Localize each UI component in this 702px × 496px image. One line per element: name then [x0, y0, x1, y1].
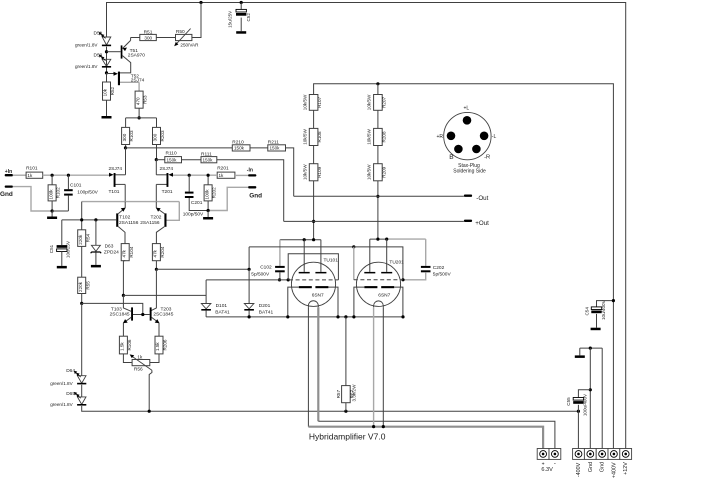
- node grid loop left: [287, 278, 290, 281]
- svg-text:T201: T201: [162, 189, 173, 195]
- svg-text:2SJ74: 2SJ74: [109, 166, 123, 172]
- node R56 wiper on rail: [148, 410, 151, 413]
- wire R55 node down to D64: [81, 303, 83, 375]
- resistor R57 3.3k/2W: [345, 317, 347, 386]
- resistor R104 47k: [121, 244, 129, 261]
- svg-text:150k: 150k: [203, 158, 214, 163]
- wire R108-R109: [313, 146, 315, 164]
- node gnd star: [589, 347, 592, 350]
- node D51-D52 junction: [105, 50, 108, 53]
- wire R209 to TU201 anode node: [377, 181, 379, 239]
- node C55 bottom on rail: [577, 410, 580, 413]
- wire R106 to R56: [123, 354, 132, 363]
- wire T51 base: [107, 51, 121, 53]
- resistor R209 10k/5W: [374, 164, 383, 181]
- svg-text:2SA1156: 2SA1156: [140, 220, 160, 226]
- ground below C54: [591, 328, 601, 331]
- wire R52 to ground: [106, 100, 108, 116]
- svg-text:100k: 100k: [204, 189, 209, 200]
- TU201 left cathode bar: [364, 286, 377, 288]
- svg-text:T102: T102: [119, 214, 130, 220]
- node TU101 left cathode rail: [286, 315, 289, 318]
- ground below C51: [57, 266, 67, 269]
- svg-text:green/1.8V: green/1.8V: [75, 64, 98, 69]
- svg-text:green/1.8V: green/1.8V: [50, 381, 73, 386]
- node anode right pin TU201: [385, 238, 388, 241]
- TU201 right cathode wire: [394, 287, 403, 317]
- TU101 left cathode wire: [288, 287, 299, 317]
- wire R207-R208: [377, 110, 379, 128]
- T51 emitter with arrow: [122, 40, 130, 48]
- svg-text:100p/50V: 100p/50V: [77, 190, 98, 196]
- svg-text:C52: C52: [246, 13, 251, 22]
- TU201 grid dashed: [354, 279, 403, 281]
- wire +In to R101: [13, 174, 26, 176]
- TU101 right cathode wire: [328, 287, 338, 317]
- terminal Gnd b: [596, 449, 608, 460]
- svg-text:green/1.8V: green/1.8V: [75, 43, 98, 48]
- node wire B D63: [94, 218, 97, 221]
- wire R103/R203 tops: [126, 117, 157, 119]
- resistor R51 300: [131, 37, 140, 39]
- svg-text:150k: 150k: [234, 146, 245, 151]
- resistor R201 1k: [217, 172, 235, 178]
- svg-text:47k: 47k: [153, 249, 158, 257]
- node C101 top: [67, 174, 70, 177]
- terminal +Out: [464, 220, 472, 222]
- resistor R111 150k: [201, 157, 217, 163]
- node T203 base / wire D: [155, 268, 158, 271]
- wire D101 to cathode rail: [205, 311, 207, 317]
- svg-text:R52: R52: [110, 86, 115, 95]
- TU101 heater arch: [308, 301, 318, 307]
- wire +400V rail: [314, 84, 614, 449]
- node C102 bottom on grid wire: [278, 278, 281, 281]
- svg-text:R208: R208: [381, 131, 386, 142]
- T203 emitter with arrow: [152, 317, 159, 323]
- ground node wires: [580, 347, 602, 349]
- node rail R207: [376, 82, 379, 85]
- T201 gate arrow: [168, 173, 173, 177]
- wire R210-R211: [250, 147, 268, 149]
- resistor R106 1.5k: [119, 336, 127, 354]
- svg-text:B: B: [449, 154, 454, 161]
- heater wire TU101 pin dark: [307, 307, 309, 427]
- svg-text:D101: D101: [216, 303, 228, 309]
- T52 gate arrow: [107, 73, 114, 75]
- svg-text:R56: R56: [134, 366, 143, 372]
- node collector link: [141, 313, 144, 316]
- svg-text:C102: C102: [260, 265, 272, 271]
- svg-text:2SJ74: 2SJ74: [131, 78, 145, 84]
- wire R201 to -In stub: [235, 174, 248, 176]
- svg-text:10k/5W: 10k/5W: [302, 129, 307, 145]
- svg-text:Gnd: Gnd: [249, 193, 262, 200]
- svg-text:300: 300: [144, 35, 152, 40]
- TU101 grid dashed: [289, 279, 338, 281]
- node heater TU201 a: [372, 425, 375, 428]
- terminal +12V: [620, 449, 632, 460]
- T101 gate arrow: [109, 173, 114, 177]
- Stax pin +L: [463, 116, 472, 125]
- svg-text:R207: R207: [381, 96, 386, 107]
- wire C grid drive L: [123, 294, 206, 296]
- svg-text:-R: -R: [484, 154, 490, 160]
- terminal +400V: [608, 449, 620, 460]
- wire R103 bottom to feedback row: [125, 145, 127, 148]
- wire node to C101 bottom: [52, 210, 68, 212]
- JFET T101 2SJ74 channel bar: [114, 173, 116, 187]
- ground below D63: [91, 265, 101, 268]
- svg-text:R210: R210: [232, 139, 244, 145]
- svg-text:+Out: +Out: [475, 220, 489, 227]
- svg-text:220k: 220k: [78, 281, 83, 292]
- svg-text:R54: R54: [85, 233, 90, 242]
- T201 source wire: [156, 183, 166, 185]
- capacitor C54 10u/400V: [597, 301, 614, 307]
- potentiometer R56 1k: [132, 360, 150, 366]
- heater wire TU201 pin gray: [373, 307, 375, 427]
- T102 collector: [118, 227, 125, 244]
- resistor R204 47k: [152, 244, 160, 261]
- wire Gnd right path: [208, 187, 248, 210]
- wire +Out: [284, 220, 464, 222]
- wire gnd terminal 2: [601, 348, 603, 448]
- T202 emitter with arrow: [156, 208, 164, 214]
- svg-text:D52: D52: [94, 53, 103, 59]
- resistor R203 300: [153, 127, 161, 144]
- svg-text:6.3V: 6.3V: [541, 467, 553, 473]
- svg-text:6SN7: 6SN7: [378, 292, 390, 298]
- LED D65 green/1.8V: [77, 397, 86, 405]
- svg-text:C201: C201: [191, 200, 203, 206]
- TU201 anode node wire: [370, 238, 387, 240]
- node rail junction R50: [199, 1, 202, 4]
- node R103 bottom: [124, 146, 127, 149]
- node gnd node L: [51, 209, 54, 212]
- R56 wiper wire to rail: [149, 370, 152, 411]
- wire R107-R108: [313, 110, 315, 128]
- svg-text:R104: R104: [129, 246, 134, 257]
- svg-text:10k/5W: 10k/5W: [367, 94, 372, 110]
- svg-text:R206: R206: [163, 339, 168, 350]
- wire R211 to -Out: [286, 148, 294, 196]
- svg-text:C202: C202: [433, 265, 445, 271]
- svg-text:R110: R110: [166, 151, 177, 157]
- resistor R206 1.5k: [155, 336, 163, 354]
- TU101 right cathode bar: [315, 286, 328, 288]
- heater gray rail 6.3V+: [308, 427, 543, 449]
- svg-text:10u/25V: 10u/25V: [66, 240, 71, 258]
- ground L input: [51, 211, 53, 217]
- wire R103 to R210: [126, 147, 233, 149]
- wire R111 to +Out: [217, 160, 284, 222]
- svg-text:-Out: -Out: [476, 195, 488, 202]
- node heater TU201 b: [382, 425, 385, 428]
- resistor R202 100k: [207, 175, 209, 185]
- TU101 right anode pin: [320, 240, 322, 272]
- resistor R54 220k: [78, 230, 86, 247]
- svg-text:15u/25V: 15u/25V: [228, 10, 233, 28]
- svg-text:10k/5W: 10k/5W: [302, 94, 307, 110]
- svg-text:1k: 1k: [219, 173, 225, 178]
- zener D63 ZPD24: [95, 220, 97, 245]
- node TU101 right cathode rail: [336, 315, 339, 318]
- svg-text:R106: R106: [127, 339, 132, 350]
- Stax plug circle: [444, 112, 491, 159]
- svg-text:Gnd: Gnd: [588, 462, 594, 472]
- node D201 rail: [248, 315, 251, 318]
- node R53 junction: [138, 116, 141, 119]
- svg-text:300: 300: [153, 133, 158, 141]
- TU201 grid loop: [353, 247, 355, 280]
- svg-text:100p/50V: 100p/50V: [183, 211, 204, 217]
- svg-text:D201: D201: [259, 303, 271, 309]
- capacitor C52 15u/25V: [240, 3, 242, 10]
- resistor R107 10k/5W: [309, 95, 318, 111]
- svg-text:5p/500V: 5p/500V: [433, 272, 452, 278]
- node TU201 left cathode rail: [352, 315, 355, 318]
- wire +12V top rail: [107, 3, 626, 449]
- svg-text:T101: T101: [109, 189, 120, 195]
- TU101 left anode pin: [303, 240, 305, 272]
- svg-text:300: 300: [122, 133, 127, 141]
- LED D52 green/1.8V: [102, 59, 111, 66]
- JFET T201 2SJ74 channel bar: [167, 173, 169, 187]
- TU101 anode node wire: [280, 239, 321, 241]
- svg-text:+400V: +400V: [611, 462, 617, 478]
- svg-text:10k/5W: 10k/5W: [367, 164, 372, 180]
- svg-text:R108: R108: [317, 131, 322, 142]
- wire R53 to node: [138, 108, 140, 118]
- wire R203 bottom: [156, 145, 158, 160]
- tube TU101 envelope circle: [291, 262, 335, 306]
- node C201 top: [188, 174, 191, 177]
- node wire B R54 chain: [80, 218, 83, 221]
- diode D101 BAT41: [201, 304, 211, 309]
- svg-text:R53: R53: [143, 95, 148, 104]
- T101 source wire: [116, 183, 126, 185]
- svg-text:R101: R101: [26, 166, 38, 172]
- wire A left drop to R54: [81, 202, 83, 230]
- svg-text:2SA1156: 2SA1156: [119, 220, 139, 226]
- wire R201 to T201 gate: [173, 174, 218, 176]
- svg-text:-In: -In: [247, 167, 253, 173]
- svg-text:150k: 150k: [167, 158, 178, 163]
- svg-text:R50: R50: [176, 29, 185, 35]
- resistor R55 220k: [78, 277, 86, 293]
- svg-text:5p/500V: 5p/500V: [251, 272, 270, 278]
- svg-text:BAT41: BAT41: [259, 310, 274, 316]
- wire R101 to T101 gate: [43, 174, 110, 176]
- node rail junction C52: [240, 1, 243, 4]
- svg-text:R209: R209: [381, 166, 386, 177]
- resistor R108 10k/5W: [309, 128, 318, 145]
- node T103 base / wire C: [122, 294, 125, 297]
- transistor T202 2SA1156 base bar: [164, 213, 166, 226]
- svg-text:R103: R103: [129, 130, 134, 141]
- Stax pin -R: [472, 145, 481, 154]
- ground R input: [207, 211, 209, 218]
- node TU201 right cathode rail: [401, 315, 404, 318]
- Stax pin -L: [480, 132, 489, 141]
- svg-text:1k: 1k: [27, 173, 33, 178]
- svg-text:green/1.8V: green/1.8V: [50, 402, 73, 407]
- svg-text:250/VAR: 250/VAR: [180, 43, 199, 48]
- Stax pin +R: [447, 132, 456, 141]
- wire A right detour to T202 base: [167, 202, 180, 221]
- svg-text:Gnd: Gnd: [0, 191, 13, 198]
- svg-text:BAT41: BAT41: [215, 310, 230, 316]
- resistor R53 470: [135, 91, 143, 108]
- terminal -Out: [464, 195, 472, 197]
- svg-text:1.5k: 1.5k: [120, 342, 125, 351]
- wire rail down to -400V terminal: [577, 411, 579, 448]
- node D52-R52 junction: [105, 71, 108, 74]
- svg-text:100u/400V: 100u/400V: [582, 393, 587, 416]
- T103 collector link: [133, 314, 150, 316]
- node R57 rail: [344, 315, 347, 318]
- T202 collector: [156, 227, 164, 244]
- resistor R207 10k/5W: [374, 95, 383, 111]
- svg-text:10k/5W: 10k/5W: [367, 129, 372, 145]
- wire to ground symbol: [579, 348, 581, 355]
- svg-text:Hybridamplifier V7.0: Hybridamplifier V7.0: [309, 432, 386, 442]
- node grid loop TU201: [352, 245, 355, 248]
- svg-text:R202: R202: [212, 187, 217, 198]
- ground below R52: [102, 116, 112, 119]
- wire R57 to rail: [345, 403, 347, 412]
- wire bias to T103/T203 collectors: [82, 303, 143, 314]
- transistor T203 2SC1845 bar: [150, 307, 152, 320]
- svg-text:Soldering Side: Soldering Side: [453, 168, 486, 174]
- transistor T52 2SJ74 channel bar: [118, 72, 120, 86]
- svg-text:10k: 10k: [103, 88, 108, 96]
- svg-text:-: -: [554, 461, 556, 467]
- TU201 left cathode wire: [354, 287, 365, 317]
- svg-text:R55: R55: [85, 281, 90, 290]
- svg-text:10k/5W: 10k/5W: [302, 164, 307, 180]
- svg-text:R201: R201: [217, 166, 229, 172]
- resistor R103 300: [122, 127, 130, 144]
- node grid right TU201: [401, 278, 404, 281]
- wire D201 to cathode rail: [248, 311, 250, 317]
- resistor R101 1k: [26, 172, 43, 178]
- TU101 grid loop: [288, 254, 338, 280]
- transistor T102 2SA1156 base bar: [116, 213, 118, 226]
- T102 emitter with arrow: [118, 208, 125, 214]
- svg-text:R211: R211: [268, 139, 279, 145]
- capacitor C101 100p/50V: [67, 175, 69, 189]
- resistor R52 10k: [106, 73, 108, 82]
- capacitor C201 100p/50V: [188, 175, 190, 191]
- capacitor C202 5p/500V: [425, 239, 427, 266]
- LED D64 green/1.8V: [77, 376, 86, 384]
- node R55 bottom: [80, 302, 83, 305]
- node R209 column TU201: [376, 238, 379, 241]
- node C55 top: [589, 388, 592, 391]
- wire D grid drive R: [156, 268, 249, 270]
- svg-text:C51: C51: [49, 244, 54, 253]
- resistor R211 150k: [268, 145, 286, 151]
- svg-text:R109: R109: [317, 166, 322, 177]
- node R109 column: [312, 238, 315, 241]
- ground below C52: [236, 31, 246, 34]
- svg-text:+R: +R: [436, 134, 443, 140]
- wire to C202 gray: [387, 238, 426, 240]
- wire B base rail: [62, 219, 116, 221]
- wire Gnd path: [13, 187, 52, 211]
- T103 emitter with arrow: [123, 317, 131, 323]
- node gnd node R: [207, 209, 210, 212]
- svg-text:6SN7: 6SN7: [312, 292, 324, 298]
- T51 collector: [120, 56, 131, 73]
- TU101 left cathode bar: [299, 286, 312, 288]
- wire cathode rail: [206, 316, 403, 318]
- svg-text:TU101: TU101: [324, 257, 339, 263]
- svg-text:+L: +L: [463, 106, 469, 112]
- wire R204 to node: [155, 261, 157, 270]
- svg-text:ZPD24: ZPD24: [104, 249, 119, 255]
- svg-text:R57: R57: [336, 390, 341, 399]
- svg-text:TU201: TU201: [389, 259, 404, 265]
- node +Out tap: [312, 220, 315, 223]
- transistor T103 2SC1845 bar: [131, 307, 133, 320]
- svg-text:C55: C55: [566, 397, 571, 406]
- wire D64-D65: [81, 385, 83, 397]
- node anode left pin: [303, 238, 306, 241]
- terminal block 6.3V +: [537, 449, 549, 460]
- heater wire TU101 pin gray: [317, 307, 319, 421]
- svg-text:C101: C101: [70, 182, 82, 188]
- wire D101 column: [205, 280, 207, 304]
- wire T103 base: [123, 295, 131, 311]
- svg-text:2SC1845: 2SC1845: [110, 312, 130, 318]
- node R203/R110 junction: [155, 158, 158, 161]
- resistor R109 10k/5W: [309, 164, 318, 181]
- wire D201 column: [248, 247, 250, 269]
- diode D201 BAT41: [244, 304, 254, 309]
- svg-text:+12V: +12V: [623, 462, 629, 475]
- wire R206 to R56: [150, 354, 159, 363]
- svg-text:T202: T202: [151, 214, 162, 220]
- svg-text:2SC1845: 2SC1845: [153, 312, 173, 318]
- svg-text:3.3k/2W: 3.3k/2W: [351, 384, 356, 402]
- TU201 right anode pin: [386, 239, 388, 272]
- node R102 top: [51, 174, 54, 177]
- svg-text:100k: 100k: [48, 189, 53, 200]
- svg-text:1.5k: 1.5k: [155, 342, 160, 351]
- svg-text:C54: C54: [584, 307, 589, 316]
- TU101 grid feed wire: [206, 279, 288, 281]
- wire B left end to C51: [61, 220, 63, 245]
- node R57 bottom on rail: [344, 410, 347, 413]
- wire R109 to TU101 anode node: [313, 181, 315, 240]
- LED D51 green/1.8V: [102, 37, 111, 45]
- wire R208-R209: [377, 146, 379, 164]
- svg-text:D65: D65: [66, 391, 75, 397]
- tube TU201 envelope circle: [356, 262, 400, 306]
- capacitor C102 5p/500V: [279, 240, 281, 266]
- heater wire TU201 pin dark: [382, 307, 384, 427]
- svg-text:D64: D64: [66, 368, 75, 374]
- svg-text:-L: -L: [492, 134, 497, 140]
- wire R207 top: [377, 84, 379, 95]
- resistor R210 150k: [232, 145, 250, 151]
- svg-text:D63: D63: [105, 243, 114, 249]
- capacitor C51 10u/25V: [57, 245, 67, 248]
- wire R51 to R50: [156, 37, 175, 39]
